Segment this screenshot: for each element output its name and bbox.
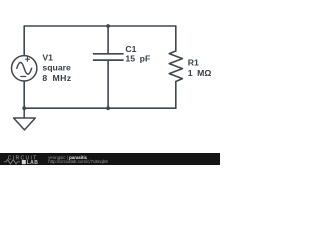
label R1 1 MΩ	[188, 58, 212, 78]
footer bar	[0, 153, 220, 165]
CircuitLab logo	[4, 156, 39, 166]
svg-text:C1: C1	[125, 44, 136, 54]
wire: top rail right segment	[108, 25, 176, 27]
capacitor C1	[93, 54, 124, 60]
footer credit text	[48, 155, 108, 164]
label C1 15 pF	[125, 44, 150, 64]
junction node: top rail / C1	[106, 24, 110, 28]
svg-text:square: square	[42, 63, 71, 73]
wire: bottom rail right segment	[108, 107, 176, 109]
svg-text:1 MΩ: 1 MΩ	[188, 68, 212, 78]
ground	[14, 108, 36, 130]
svg-text:8 MHz: 8 MHz	[42, 73, 71, 83]
wire: left vertical from top rail to V1 top	[23, 26, 25, 56]
resistor R1	[169, 51, 182, 82]
svg-text:R1: R1	[188, 58, 199, 68]
voltage source V1	[12, 56, 37, 81]
svg-text:V1: V1	[42, 52, 53, 62]
wire: C1 top lead	[107, 26, 109, 54]
wire: C1 bottom lead	[107, 60, 109, 108]
wire: right vertical from top rail to R1 top	[175, 26, 177, 51]
junction node: bottom rail / ground	[22, 106, 26, 110]
junction node: bottom rail / C1	[106, 106, 110, 110]
wire: top rail left segment	[24, 25, 108, 27]
svg-text:LAB: LAB	[27, 160, 39, 165]
label V1 square 8 MHz	[42, 52, 71, 83]
svg-text:15 pF: 15 pF	[125, 54, 150, 64]
svg-text:http://circuitlab.com/c/7u5nqb: http://circuitlab.com/c/7u5nqb8	[48, 159, 108, 164]
wire: bottom rail left segment	[24, 107, 108, 109]
wire: R1 bottom lead	[175, 82, 177, 109]
wire: V1 bottom lead	[23, 81, 25, 108]
